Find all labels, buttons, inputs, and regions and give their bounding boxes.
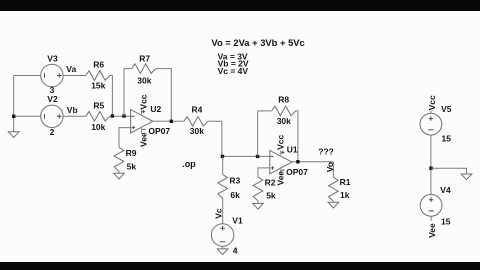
svg-text:OP07: OP07	[148, 126, 170, 136]
V4 Vee stub	[430, 216, 432, 221]
U2 inverting input marker	[131, 115, 134, 117]
node junction R7 drop	[122, 114, 125, 117]
svg-text:U1: U1	[287, 145, 298, 155]
wire U1 output to corner	[292, 161, 333, 163]
svg-text:OP07: OP07	[286, 167, 308, 177]
wire R3 to V1	[222, 198, 224, 224]
svg-text:15: 15	[442, 134, 452, 144]
resistor R1	[329, 177, 339, 201]
svg-text:Vo = 2Va + 3Vb + 5Vc: Vo = 2Va + 3Vb + 5Vc	[211, 37, 304, 48]
svg-text:V1: V1	[232, 215, 243, 225]
svg-text:V2: V2	[47, 94, 58, 104]
svg-text:1k: 1k	[340, 190, 350, 200]
svg-text:Vee: Vee	[138, 132, 148, 147]
svg-text:V4: V4	[440, 185, 451, 195]
wire R7 right lead and drop to U2 output	[156, 69, 172, 122]
resistor R2	[253, 177, 263, 201]
svg-text:R6: R6	[93, 60, 104, 70]
wire R2 to ground	[257, 201, 259, 204]
wire R5 to U2 inverting input	[110, 115, 131, 117]
wire U2 plus input left and down	[119, 128, 131, 148]
wire R8 left lead	[258, 110, 272, 112]
svg-text:R3: R3	[229, 176, 240, 186]
voltage source V3	[41, 64, 63, 86]
svg-text:V5: V5	[441, 104, 452, 114]
node junction R8 drop	[256, 155, 259, 158]
wire R7 left lead	[124, 68, 132, 70]
voltage source V4	[420, 194, 442, 216]
wire V3 plus to R6	[63, 75, 86, 77]
svg-text:15: 15	[441, 217, 451, 227]
wire V3 minus to rail	[14, 75, 41, 77]
wire R1 to ground	[332, 201, 334, 202]
U1 Vcc pin stub	[280, 150, 282, 155]
node junction U2 output / R7	[170, 120, 173, 123]
U2 Vcc pin stub	[141, 110, 143, 115]
wire junction to right ground	[431, 168, 467, 174]
svg-text:.op: .op	[182, 159, 196, 169]
resistor R6	[86, 71, 110, 81]
wire R8 left drop	[257, 111, 259, 156]
wire R6 right then down to input node	[110, 76, 113, 117]
voltage source V5	[420, 113, 442, 135]
svg-text:2: 2	[50, 127, 55, 137]
ground G2 under R9	[114, 173, 125, 179]
svg-text:15k: 15k	[91, 81, 105, 91]
svg-text:Vcc: Vcc	[427, 95, 437, 110]
op-amp U1 triangle	[270, 150, 292, 173]
svg-text:Vee: Vee	[276, 171, 286, 186]
wire V5 to junction	[430, 135, 432, 194]
top letterbox bar	[0, 0, 480, 11]
svg-text:R1: R1	[340, 177, 351, 187]
ground G5 under R1	[328, 202, 339, 208]
svg-text:R5: R5	[93, 101, 104, 111]
svg-text:4: 4	[233, 246, 238, 256]
resistor R5	[86, 112, 110, 122]
svg-text:5k: 5k	[127, 162, 137, 172]
U2 non-inverting input marker	[132, 126, 135, 129]
wire R8 right lead and drop to U1 output	[296, 111, 298, 162]
ground G6 right	[461, 174, 472, 180]
node junction rail/V2	[12, 115, 15, 118]
wire R4 right then down to summing node	[208, 121, 222, 156]
svg-text:R2: R2	[265, 177, 276, 187]
svg-text:30k: 30k	[277, 116, 291, 126]
wire summing node to U1 inverting input	[222, 155, 270, 157]
resistor R9	[114, 147, 124, 171]
resistor R4	[184, 117, 208, 127]
wire V2 minus to rail	[14, 115, 41, 117]
wire U2 output	[153, 120, 184, 122]
svg-text:???: ???	[318, 146, 334, 156]
svg-text:Va: Va	[66, 64, 76, 74]
wire left rail vertical	[13, 76, 15, 132]
resistor R3	[218, 174, 228, 198]
wire Vcc stub to V5	[430, 110, 432, 113]
wire V1 to ground	[222, 246, 224, 249]
svg-text:V3: V3	[47, 53, 58, 63]
node junction supply mid	[429, 167, 432, 170]
node junction R4/R3	[221, 155, 224, 158]
U1 inverting input marker	[270, 155, 273, 157]
U1 non-inverting input marker	[271, 166, 274, 169]
voltage source V2	[41, 105, 63, 127]
wire output corner down to R1	[332, 162, 334, 177]
svg-text:30k: 30k	[137, 75, 151, 85]
bottom letterbox bar	[0, 262, 480, 270]
op-amp U2 triangle	[131, 110, 153, 133]
U2 Vee pin stub	[141, 128, 143, 134]
voltage source V1	[211, 224, 233, 246]
wire node down to R3	[222, 156, 224, 174]
U1 Vee pin stub	[280, 169, 282, 175]
resistor R7	[132, 64, 156, 74]
node junction R6 drop	[111, 114, 114, 117]
svg-text:6k: 6k	[230, 190, 240, 200]
wire R7 left drop to input node	[123, 69, 125, 117]
svg-text:R9: R9	[126, 148, 137, 158]
ground G3 under V1	[217, 249, 228, 255]
resistor R8	[272, 106, 296, 116]
node junction U1 output / R8	[296, 160, 299, 163]
svg-text:R4: R4	[192, 104, 203, 114]
wire V2 plus to R5	[63, 115, 86, 117]
svg-text:10k: 10k	[91, 122, 105, 132]
svg-text:Vc = 4V: Vc = 4V	[218, 66, 249, 76]
wire U1 plus input left and down to R2	[258, 168, 270, 177]
svg-text:U2: U2	[150, 104, 161, 114]
svg-text:Vb: Vb	[67, 105, 78, 115]
svg-text:Vee: Vee	[427, 223, 437, 238]
svg-text:5k: 5k	[266, 191, 276, 201]
wire R9 to ground	[118, 171, 120, 173]
svg-text:Vcc: Vcc	[276, 135, 286, 150]
svg-text:R7: R7	[139, 53, 150, 63]
svg-text:Vc: Vc	[214, 208, 224, 219]
svg-text:30k: 30k	[190, 126, 204, 136]
ground G4 under R2	[253, 203, 264, 209]
ground G1 left rail	[8, 132, 19, 138]
svg-text:R8: R8	[278, 94, 289, 104]
svg-text:Vcc: Vcc	[139, 94, 149, 109]
